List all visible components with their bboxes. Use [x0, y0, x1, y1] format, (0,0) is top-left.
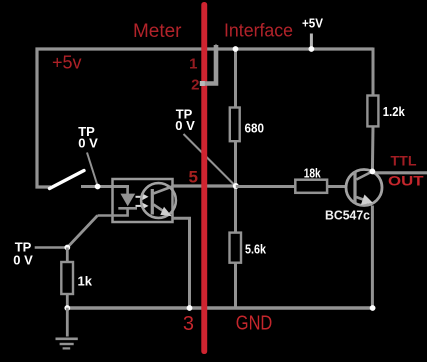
LED D1 cathode lead — [98, 208, 128, 215]
svg-text:OUT: OUT — [388, 172, 424, 188]
svg-text:3: 3 — [183, 313, 194, 335]
wire emitter down to rail — [371, 206, 374, 309]
node collector TTL — [370, 169, 376, 175]
resistor R1 1k body — [61, 262, 73, 294]
svg-text:0 V: 0 V — [175, 118, 195, 133]
svg-text:+5v: +5v — [52, 53, 82, 73]
wire 1.2k to collector node — [371, 126, 375, 171]
node rail right — [370, 305, 376, 311]
svg-text:BC547c: BC547c — [325, 208, 370, 223]
node TP bottom — [64, 245, 70, 251]
svg-text:Meter: Meter — [133, 21, 182, 42]
svg-text:2: 2 — [191, 77, 199, 94]
wire top rail to 1.2k — [372, 48, 375, 96]
node pin3 — [187, 305, 193, 311]
LED D1 triangle — [120, 194, 135, 207]
svg-text:680: 680 — [245, 120, 265, 135]
svg-text:GND: GND — [236, 313, 272, 335]
resistor R3 5.6k body — [230, 233, 242, 263]
node 5 — [233, 183, 239, 189]
test point TP leader (node 5) — [184, 134, 235, 185]
wire 680 top — [234, 49, 237, 108]
jumper pin2 tip — [214, 44, 219, 48]
+5V stub — [310, 34, 313, 50]
wire TTL OUT — [372, 171, 427, 174]
svg-text:5.6k: 5.6k — [245, 241, 267, 256]
wire TP text to node — [35, 246, 68, 249]
node top rail 680 — [233, 46, 239, 52]
test point TP leader (switch node) — [87, 153, 97, 185]
phototransistor Q1 collector — [154, 186, 175, 194]
wire 5.6k to ground rail — [234, 263, 237, 308]
wire node5 to 5.6k — [234, 186, 237, 233]
wire 680 bottom to node 5 — [234, 141, 237, 186]
wire switch contact to optocoupler anode — [81, 185, 129, 188]
node ground rail left — [64, 305, 70, 311]
wire base 18k — [236, 185, 295, 188]
light arrow 2 — [136, 203, 149, 209]
resistor R2 680 body — [230, 108, 240, 142]
LED D1 cathode bar — [118, 207, 137, 210]
phototransistor Q1 base bar — [151, 189, 154, 215]
wire left frame — [37, 48, 51, 188]
svg-text:5: 5 — [189, 168, 198, 187]
transistor Q2 collector — [357, 171, 373, 179]
transistor Q2 emitter — [356, 195, 373, 206]
node TP meter — [95, 184, 101, 190]
jumper pin2 to +5V vertical — [202, 45, 216, 84]
optocoupler U1 body — [113, 179, 173, 222]
wire ground rail — [67, 306, 373, 310]
ground symbol — [56, 308, 78, 349]
wire R1 to ground rail — [66, 294, 69, 308]
svg-text:1: 1 — [189, 56, 197, 73]
svg-text:+5V: +5V — [302, 15, 323, 30]
svg-text:TTL: TTL — [391, 152, 417, 168]
wire 18k to base — [327, 185, 347, 188]
svg-text:0 V: 0 V — [13, 253, 33, 268]
wire TP node to R1 — [66, 248, 69, 263]
wire LED cathode to TP node — [67, 216, 97, 248]
wire top +5V rail — [36, 47, 374, 50]
red divider line — [201, 2, 207, 354]
jumper pin2 end cap — [200, 81, 205, 86]
svg-text:1.2k: 1.2k — [383, 104, 406, 119]
wire opto emitter to ground rail — [173, 218, 190, 308]
LED D1 anode lead — [126, 187, 129, 195]
light arrow 1 — [136, 194, 149, 200]
transistor Q2 circle — [346, 170, 382, 206]
resistor R5 1.2k body — [367, 96, 378, 127]
svg-text:Interface: Interface — [224, 20, 293, 41]
svg-text:18k: 18k — [304, 166, 322, 181]
svg-text:1k: 1k — [78, 274, 93, 289]
resistor R4 18k body — [295, 180, 327, 193]
phototransistor Q1 circle — [141, 183, 176, 218]
transistor Q2 base bar — [353, 172, 356, 203]
wire opto collector to node 5 — [173, 184, 236, 187]
node +5V — [309, 46, 315, 52]
svg-text:0 V: 0 V — [78, 136, 98, 151]
switch S1 blade — [50, 171, 85, 189]
phototransistor Q1 emitter — [154, 205, 172, 217]
